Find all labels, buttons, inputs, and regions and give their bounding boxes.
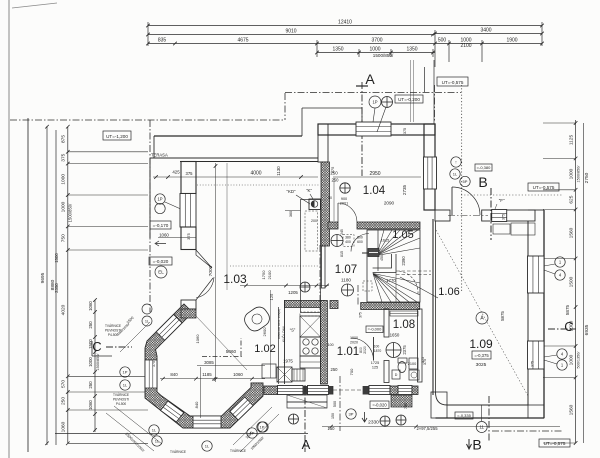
svg-text:2600: 2600 xyxy=(262,327,267,337)
svg-text:840: 840 xyxy=(194,401,199,408)
svg-text:150: 150 xyxy=(331,413,335,419)
svg-text:=-0,020: =-0,020 xyxy=(153,259,169,264)
svg-text:↑: ↑ xyxy=(455,160,457,165)
svg-text:1.06: 1.06 xyxy=(438,286,459,298)
svg-text:375: 375 xyxy=(531,361,535,367)
svg-text:250: 250 xyxy=(61,397,67,405)
svg-text:11: 11 xyxy=(479,425,484,430)
svg-text:2350: 2350 xyxy=(54,283,59,293)
svg-text:700: 700 xyxy=(349,368,354,375)
svg-text:380: 380 xyxy=(345,236,351,240)
svg-text:250: 250 xyxy=(88,381,93,389)
svg-text:1560: 1560 xyxy=(569,404,575,415)
svg-text:2020: 2020 xyxy=(363,346,367,354)
svg-text:PEVNOSTI: PEVNOSTI xyxy=(105,329,121,333)
svg-text:“F”: “F” xyxy=(499,198,505,203)
svg-text:1560: 1560 xyxy=(569,227,575,238)
svg-text:1060: 1060 xyxy=(88,301,93,311)
svg-text:750: 750 xyxy=(61,234,67,242)
svg-text:375: 375 xyxy=(359,312,363,318)
svg-text:1.02: 1.02 xyxy=(254,343,275,355)
svg-text:1060: 1060 xyxy=(61,421,67,432)
svg-text:2330: 2330 xyxy=(368,420,379,426)
svg-text:500: 500 xyxy=(438,38,447,44)
svg-text:1205: 1205 xyxy=(288,290,298,295)
svg-text:400: 400 xyxy=(345,240,351,244)
svg-text:4675: 4675 xyxy=(237,38,248,44)
svg-text:12410: 12410 xyxy=(338,20,352,26)
svg-text:625: 625 xyxy=(569,195,575,203)
svg-text:2950: 2950 xyxy=(369,171,380,177)
svg-text:425: 425 xyxy=(172,170,180,175)
svg-text:835: 835 xyxy=(158,38,167,44)
svg-text:7000: 7000 xyxy=(208,265,214,276)
svg-text:1.09: 1.09 xyxy=(469,337,493,351)
svg-text:1500/850/: 1500/850/ xyxy=(68,203,73,222)
svg-text:UT=-0,575: UT=-0,575 xyxy=(544,441,566,446)
svg-text:1725: 1725 xyxy=(371,361,379,365)
svg-text:1P: 1P xyxy=(157,197,162,202)
svg-text:2375: 2375 xyxy=(402,345,407,355)
svg-text:1000: 1000 xyxy=(88,357,93,367)
svg-text:=-0,020: =-0,020 xyxy=(372,403,387,408)
svg-text:1500/850/: 1500/850/ xyxy=(577,165,581,183)
svg-text:1.07: 1.07 xyxy=(335,264,357,276)
svg-text:2100: 2100 xyxy=(460,43,471,49)
svg-text:5P: 5P xyxy=(463,179,468,184)
svg-text:200: 200 xyxy=(311,219,317,223)
svg-text:100: 100 xyxy=(374,345,380,349)
svg-text:UT=-0,200: UT=-0,200 xyxy=(398,97,420,102)
svg-text:6935: 6935 xyxy=(584,324,590,335)
svg-text:1180: 1180 xyxy=(341,278,351,283)
svg-text:TERASA: TERASA xyxy=(151,153,168,158)
svg-text:1P: 1P xyxy=(123,370,128,375)
svg-text:“S”: “S” xyxy=(290,328,296,333)
svg-text:2020: 2020 xyxy=(350,341,358,345)
svg-text:800: 800 xyxy=(357,236,363,240)
svg-text:150: 150 xyxy=(328,426,336,431)
svg-text:A: A xyxy=(302,437,311,452)
svg-text:1185: 1185 xyxy=(202,372,212,377)
svg-text:1L: 1L xyxy=(152,428,157,433)
svg-text:1870: 1870 xyxy=(374,349,382,353)
svg-text:1975: 1975 xyxy=(283,359,293,364)
svg-text:UT=-0,575: UT=-0,575 xyxy=(442,80,464,85)
svg-text:450: 450 xyxy=(380,255,384,261)
svg-text:1L: 1L xyxy=(155,439,160,444)
svg-text:UT=-0,575: UT=-0,575 xyxy=(533,185,555,190)
svg-text:375: 375 xyxy=(61,153,67,161)
svg-text:375: 375 xyxy=(152,361,156,367)
svg-text:=-0,170: =-0,170 xyxy=(153,223,169,228)
svg-text:1060: 1060 xyxy=(233,372,243,377)
svg-text:TVÁRNICE: TVÁRNICE xyxy=(230,449,246,453)
svg-text:1750: 1750 xyxy=(261,270,266,280)
svg-text:TVÁRNICE: TVÁRNICE xyxy=(105,324,121,328)
svg-text:P4-500: P4-500 xyxy=(116,402,127,406)
svg-text:1.03: 1.03 xyxy=(223,272,247,286)
svg-text:KUĎL DNY: KUĎL DNY xyxy=(281,325,286,342)
svg-text:=-0,380: =-0,380 xyxy=(477,165,491,170)
svg-text:1000: 1000 xyxy=(369,47,380,53)
svg-text:1500/850/: 1500/850/ xyxy=(96,353,100,371)
svg-text:815: 815 xyxy=(340,251,344,257)
svg-text:3P: 3P xyxy=(349,412,354,417)
svg-text:UT=-1,200: UT=-1,200 xyxy=(106,134,128,139)
svg-text:1130: 1130 xyxy=(276,166,281,176)
svg-text:1500: 1500 xyxy=(54,253,59,263)
svg-text:50: 50 xyxy=(328,196,332,200)
svg-text:=-0,335: =-0,335 xyxy=(457,413,471,418)
svg-text:840: 840 xyxy=(170,372,178,377)
svg-text:EL: EL xyxy=(158,270,164,275)
svg-text:1500: 1500 xyxy=(569,276,575,287)
svg-text:1L: 1L xyxy=(145,320,149,324)
svg-text:C: C xyxy=(92,339,101,354)
svg-text:TVÁRNICE: TVÁRNICE xyxy=(170,450,186,454)
svg-text:1615: 1615 xyxy=(381,239,389,243)
svg-text:PEVNOSTI: PEVNOSTI xyxy=(113,398,129,402)
svg-text:900: 900 xyxy=(341,197,347,201)
svg-text:9010: 9010 xyxy=(285,29,296,35)
svg-text:1900: 1900 xyxy=(506,38,517,44)
svg-text:1.08: 1.08 xyxy=(393,319,415,331)
svg-text:375: 375 xyxy=(403,128,407,134)
svg-text:1L: 1L xyxy=(205,444,210,449)
svg-text:B: B xyxy=(472,437,481,453)
svg-text:9695: 9695 xyxy=(40,272,46,283)
svg-text:2100: 2100 xyxy=(267,270,272,280)
svg-text:360: 360 xyxy=(289,211,293,217)
svg-text:500: 500 xyxy=(333,401,337,407)
svg-text:4020: 4020 xyxy=(61,304,67,315)
svg-text:1000: 1000 xyxy=(61,201,67,212)
svg-text:2735: 2735 xyxy=(402,184,407,195)
svg-text:1L: 1L xyxy=(123,383,128,388)
svg-text:“KD”: “KD” xyxy=(286,189,296,194)
svg-text:3085: 3085 xyxy=(204,360,214,365)
svg-text:1.01: 1.01 xyxy=(337,346,359,358)
svg-text:245: 245 xyxy=(340,229,344,235)
svg-text:375: 375 xyxy=(421,357,425,363)
svg-text:1P: 1P xyxy=(372,100,377,105)
svg-text:125: 125 xyxy=(269,293,274,300)
svg-text:1060: 1060 xyxy=(195,334,200,344)
svg-text:500/1350/: 500/1350/ xyxy=(577,351,581,369)
svg-text:1125: 1125 xyxy=(569,135,575,146)
svg-text:2100: 2100 xyxy=(408,362,416,366)
svg-text:D: D xyxy=(395,373,398,377)
svg-text:570: 570 xyxy=(61,380,67,388)
svg-text:750: 750 xyxy=(404,403,408,409)
svg-text:1000: 1000 xyxy=(569,354,575,365)
svg-text:1060: 1060 xyxy=(88,400,93,410)
svg-text:875: 875 xyxy=(61,135,67,143)
svg-text:2750: 2750 xyxy=(584,172,590,183)
svg-text:125: 125 xyxy=(372,366,378,370)
svg-text:5875: 5875 xyxy=(565,304,570,315)
svg-text:375: 375 xyxy=(330,166,335,173)
svg-text:OBKLAD KCI1 165(M): OBKLAD KCI1 165(M) xyxy=(277,309,281,339)
svg-text:5875: 5875 xyxy=(500,311,505,321)
svg-text:375: 375 xyxy=(502,214,506,220)
svg-text:1770: 1770 xyxy=(386,278,396,283)
svg-text:2390: 2390 xyxy=(401,256,406,266)
svg-text:1650: 1650 xyxy=(390,333,400,338)
svg-text:P4-500: P4-500 xyxy=(108,333,119,337)
svg-text:1L: 1L xyxy=(453,172,458,177)
svg-text:3400: 3400 xyxy=(480,28,491,34)
svg-text:“K”: “K” xyxy=(306,188,312,193)
svg-text:2090: 2090 xyxy=(384,201,395,206)
svg-text:1.04: 1.04 xyxy=(363,185,386,197)
svg-text:250: 250 xyxy=(88,321,93,329)
svg-text:4000: 4000 xyxy=(250,171,261,177)
svg-text:TVÁRNICE: TVÁRNICE xyxy=(113,393,129,397)
svg-text:=-0,000: =-0,000 xyxy=(368,327,382,332)
svg-text:1350: 1350 xyxy=(406,47,417,53)
svg-text:1060: 1060 xyxy=(159,233,169,238)
svg-text:1000: 1000 xyxy=(61,174,67,185)
svg-text:1350: 1350 xyxy=(332,47,343,53)
svg-text:3700: 3700 xyxy=(371,38,382,44)
svg-text:375: 375 xyxy=(186,171,194,176)
svg-text:A: A xyxy=(365,71,375,87)
svg-text:250: 250 xyxy=(331,367,339,372)
svg-text:375: 375 xyxy=(186,232,191,239)
svg-text:1000: 1000 xyxy=(569,168,575,179)
svg-text:=-0,375: =-0,375 xyxy=(474,353,489,358)
svg-text:100: 100 xyxy=(328,343,334,347)
svg-text:3025: 3025 xyxy=(476,362,487,368)
svg-text:250: 250 xyxy=(332,178,340,183)
svg-text:600: 600 xyxy=(357,240,363,244)
svg-text:C: C xyxy=(564,319,573,334)
svg-text:B: B xyxy=(478,174,487,190)
